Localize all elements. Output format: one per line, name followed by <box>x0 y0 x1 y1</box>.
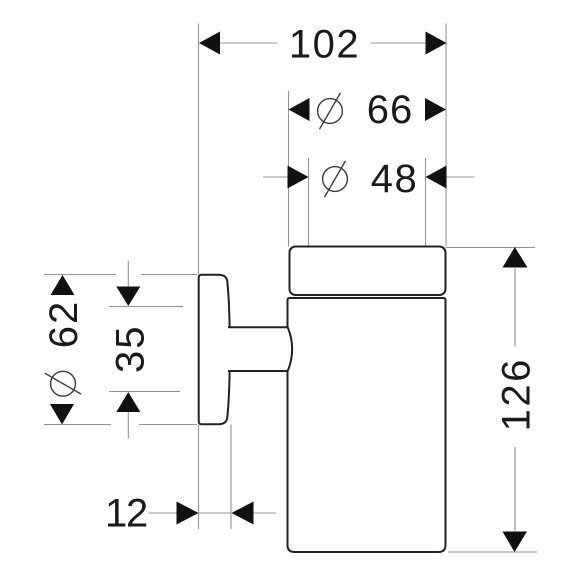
dimension 126 line upper <box>514 268 516 347</box>
dimension dia48 arrow left <box>288 166 309 189</box>
dimension dia66 arrow left <box>289 98 310 121</box>
extension line dia48 left (x=308.5) <box>308 158 310 247</box>
svg-text:102: 102 <box>289 23 360 67</box>
dimension 126 arrow down <box>503 532 528 553</box>
dimension 126 arrow up <box>503 247 528 268</box>
dimension 102 arrow right <box>426 32 447 55</box>
extension line left (wall plane, x=198.5) <box>198 24 200 530</box>
diameter symbol for 62 (rotated) <box>45 371 81 396</box>
dimension 35 leader above <box>127 261 129 288</box>
dimension 12 leader left <box>149 512 178 514</box>
dimension 62 bottom extension line <box>44 424 197 426</box>
dimension 12 arrow right <box>232 502 254 525</box>
svg-text:12: 12 <box>105 492 147 536</box>
dimension 102 arrow left <box>199 32 220 55</box>
svg-text:66: 66 <box>367 88 414 132</box>
dimension dia48 leader right <box>447 176 475 178</box>
dimension 62 arrow up <box>51 275 75 295</box>
dimension 12 leader right <box>254 512 277 514</box>
dimension 102 line segments <box>219 42 427 44</box>
wall plate <box>199 275 230 425</box>
dimension 12 line between tips <box>199 512 232 514</box>
dimension dia66 arrow right <box>425 98 446 121</box>
extension line plate back (x=231) <box>230 425 232 530</box>
extension line dia48 right (x=425.5) <box>425 158 427 247</box>
dimension 35 arrow up <box>116 392 140 412</box>
cup body <box>288 298 446 552</box>
dimension 126 line lower <box>514 447 516 531</box>
dimension dia48 arrow right <box>426 166 447 189</box>
dimension 126 bottom extension line <box>448 551 537 553</box>
diameter symbol for 66 <box>318 93 343 129</box>
dimension dia48 leader left <box>263 176 288 178</box>
dimension 62 arrow down <box>50 404 74 425</box>
dimension 62 top extension line <box>44 274 197 276</box>
dimension 35 bottom reference line <box>109 391 180 393</box>
extension line right (cup front, x=446) <box>445 24 447 247</box>
svg-text:126: 126 <box>495 357 539 431</box>
dimension 35 arrow down <box>116 287 140 307</box>
dimension 12 arrow left <box>177 502 199 525</box>
dimension 35 leader below <box>127 412 129 439</box>
dimension 35 top reference line <box>109 306 183 308</box>
svg-text:48: 48 <box>371 157 419 201</box>
arm connecting plate to cup <box>228 327 292 371</box>
svg-text:62: 62 <box>42 300 86 349</box>
svg-text:35: 35 <box>109 325 153 374</box>
extension line dia66 left (x=288.5) <box>288 91 290 247</box>
dimension 126 top extension line <box>446 247 535 249</box>
diameter symbol for 48 <box>323 161 348 197</box>
cup holder rim (top band) <box>290 247 446 296</box>
